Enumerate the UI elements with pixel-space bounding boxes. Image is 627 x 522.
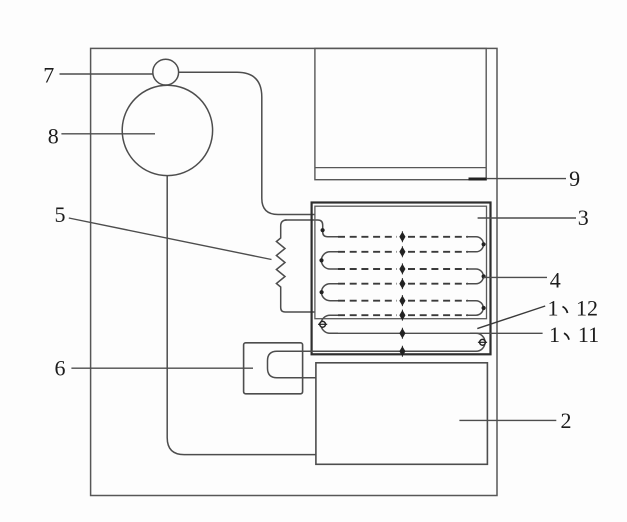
junction dot left U rows 2-3: [319, 258, 323, 262]
label 1,12: [548, 295, 599, 320]
left U-turn rows 2-3: [321, 252, 338, 269]
ring marker left U rows 6-7: [318, 321, 327, 327]
wire from component 8 bottom to component 2 box: [167, 176, 316, 455]
left U-turn rows 6-7: [321, 315, 338, 333]
serpentine row 2 dashed: [338, 251, 468, 253]
left U-turn rows 4-5: [322, 284, 339, 301]
ring marker right U rows 7-8: [478, 339, 487, 345]
middle column markers (8 diamonds): [400, 231, 405, 357]
outer cabinet box: [91, 48, 497, 495]
leader line label 3: [478, 217, 576, 219]
leader line label 9: [486, 178, 566, 180]
svg-text:7: 7: [43, 63, 54, 88]
serpentine row 4 dashed: [338, 283, 468, 285]
serpentine row 1 dashed: [338, 236, 468, 238]
element 6 box: [244, 343, 303, 394]
svg-text:11: 11: [578, 322, 599, 347]
leader line label 7: [60, 73, 153, 75]
leader line label 5: [69, 218, 272, 260]
svg-text:1: 1: [548, 295, 559, 320]
serpentine row 7 solid (extends to label 1,11 leader): [338, 332, 543, 334]
svg-text:5: 5: [55, 202, 66, 227]
junction dot left U rows 4-5: [320, 290, 324, 294]
wire from component 7 right side down to coil box inlet: [179, 72, 315, 214]
right U-turn rows 5-6: [466, 301, 483, 316]
coil box inner frame (element 1/12 plate): [315, 206, 487, 319]
leader line label 1,12 (diagonal): [477, 306, 545, 329]
svg-text:2: 2: [561, 408, 572, 433]
svg-text:4: 4: [550, 268, 561, 293]
component 8 large circle: [122, 85, 212, 175]
svg-text:8: 8: [48, 123, 59, 148]
leader line label 8: [61, 133, 155, 135]
junction dot right U rows 1-2: [482, 242, 486, 246]
component 7 small circle: [153, 59, 179, 85]
serpentine row 8 and pipe to element 6 (rounded U-tube): [268, 351, 471, 377]
svg-text:6: 6: [55, 356, 66, 381]
leader line label 6: [71, 367, 253, 369]
coil box outer frame (element 3): [312, 203, 491, 355]
serpentine row 3 dashed: [338, 268, 468, 270]
wire from element 5 top to serpentine inlet: [285, 220, 338, 237]
component 9 inner shelf line: [315, 167, 486, 169]
resistor/coil element 5 zigzag with connecting wire to coil box: [276, 220, 315, 312]
serpentine row 5 dashed: [338, 300, 468, 302]
component 9 rectangle (top right compartment): [315, 48, 486, 179]
right U-turn rows 3-4: [466, 269, 483, 284]
svg-text:3: 3: [578, 205, 589, 230]
svg-text:9: 9: [569, 166, 580, 191]
leader line label 2: [459, 419, 556, 421]
right U-turn rows 1-2: [466, 237, 484, 252]
svg-text:1: 1: [549, 322, 560, 347]
leader line label 4: [484, 276, 548, 278]
component 9 thick bottom bar: [469, 178, 487, 181]
serpentine row 6 dashed: [338, 314, 468, 316]
junction dot at serpentine inlet: [321, 228, 325, 232]
label 1,11: [549, 322, 599, 347]
junction dot right U rows 5-6: [482, 306, 486, 310]
svg-text:12: 12: [576, 295, 598, 320]
component 2 box: [316, 363, 488, 465]
right U-turn rows 7-8: [470, 333, 485, 351]
junction dot right U rows 3-4: [482, 274, 486, 278]
